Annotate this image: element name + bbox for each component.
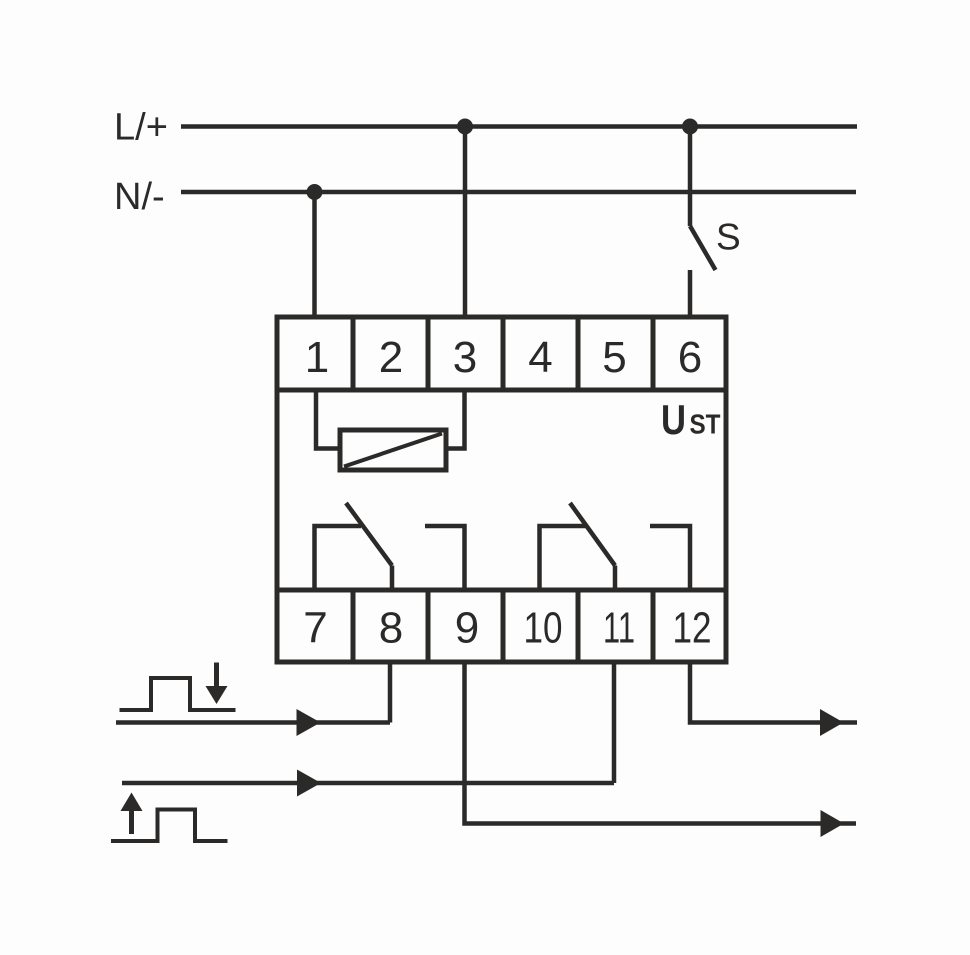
coil diagonal stroke xyxy=(344,434,442,467)
wire L/+ supply line xyxy=(181,124,857,129)
svg-text:1: 1 xyxy=(305,333,329,382)
junction dot on L/+ above switch S xyxy=(682,119,698,135)
svg-text:12: 12 xyxy=(673,604,712,653)
terminal divider 2/3 xyxy=(426,317,431,390)
svg-text:10: 10 xyxy=(524,604,563,653)
label Ust xyxy=(661,396,721,443)
terminal divider 10/11 xyxy=(576,590,581,662)
wire terminal 12 fixed contact xyxy=(650,526,690,590)
coil / timing element K1 xyxy=(340,430,446,470)
terminal divider 9/10 xyxy=(501,590,506,662)
waveform pulse with rising-edge marker xyxy=(111,810,228,842)
svg-text:S: S xyxy=(716,217,741,258)
terminal divider 5/6 xyxy=(651,317,656,390)
top terminal row bottom line xyxy=(277,388,725,393)
device outline box xyxy=(277,317,726,662)
arrowhead input line 1 xyxy=(297,709,321,736)
relay contact wire terminal 10 fixed contact xyxy=(540,526,587,590)
terminal divider 1/2 xyxy=(351,317,356,390)
bottom terminal row top line xyxy=(277,588,725,593)
terminal divider 11/12 xyxy=(651,590,656,662)
wire coil to terminal 3 xyxy=(446,390,465,449)
svg-text:8: 8 xyxy=(379,604,403,653)
wire terminal 8 down to input line 1 xyxy=(388,662,393,723)
wire N/- to terminal 1 xyxy=(312,192,317,317)
junction dot on L/+ above terminal 3 xyxy=(457,119,473,135)
wire switch S to terminal 6 xyxy=(688,270,693,317)
wire L/+ to switch S xyxy=(688,127,693,227)
wire L/+ to terminal 3 xyxy=(463,127,468,318)
svg-text:N/-: N/- xyxy=(114,176,165,218)
wire N/- supply line xyxy=(181,190,856,195)
waveform pulse with falling-edge marker xyxy=(120,678,236,710)
svg-text:9: 9 xyxy=(455,604,479,653)
svg-text:11: 11 xyxy=(603,604,635,653)
terminal divider 7/8 xyxy=(351,590,356,662)
input line 1 xyxy=(116,720,390,725)
falling edge arrowhead xyxy=(206,686,228,704)
junction dot on N/- above terminal 1 xyxy=(307,184,323,200)
terminal divider 3/4 xyxy=(501,317,506,390)
svg-text:L/+: L/+ xyxy=(114,107,168,149)
svg-text:7: 7 xyxy=(303,604,327,653)
switch S arm (open contact) xyxy=(690,226,716,270)
arrowhead output line 2 xyxy=(821,810,845,837)
svg-text:U: U xyxy=(661,396,686,443)
wire terminal 12 down to output line 1 xyxy=(690,662,857,723)
falling edge arrow shaft xyxy=(214,663,219,688)
relay contact wire terminal 7 fixed contact xyxy=(315,526,362,590)
relay contact arm 10-11 xyxy=(570,503,615,566)
svg-text:3: 3 xyxy=(453,333,477,382)
rising edge arrow shaft xyxy=(129,810,134,834)
wire terminal 11 down to input line 2 xyxy=(612,662,617,783)
rising edge arrowhead xyxy=(121,793,143,812)
input line 2 xyxy=(122,781,614,786)
svg-text:6: 6 xyxy=(678,333,702,382)
svg-text:4: 4 xyxy=(528,333,552,382)
svg-text:ST: ST xyxy=(690,409,721,440)
terminal divider 4/5 xyxy=(576,317,581,390)
svg-text:5: 5 xyxy=(602,333,626,382)
arrowhead input line 2 xyxy=(297,770,321,797)
wire contact arm to terminal 11 xyxy=(613,566,618,591)
wire terminal 1 to coil xyxy=(316,390,341,449)
wire contact arm to terminal 8 xyxy=(390,566,395,591)
wire terminal 9 fixed contact xyxy=(425,526,465,590)
terminal divider 8/9 xyxy=(426,590,431,662)
wire terminal 9 down to output line 2 xyxy=(465,662,857,824)
svg-text:2: 2 xyxy=(379,333,403,382)
relay contact arm 7-8 xyxy=(346,503,392,566)
arrowhead output line 1 xyxy=(820,709,844,736)
